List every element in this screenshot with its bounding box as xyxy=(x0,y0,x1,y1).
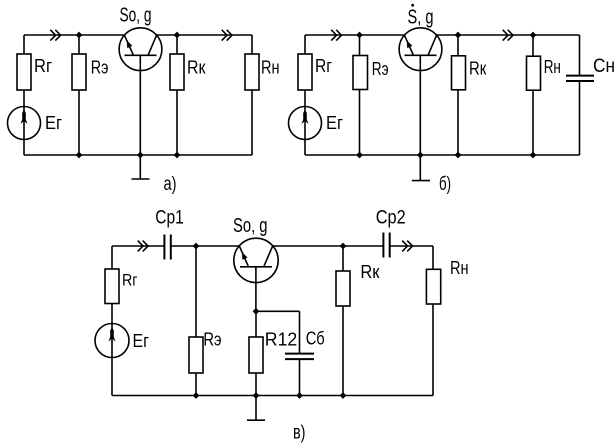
svg-text:S, g: S, g xyxy=(408,7,434,29)
wire: left branch vertical Rg/Eg (v) xyxy=(111,246,113,396)
source Eg (b) xyxy=(289,107,322,140)
svg-text:б): б) xyxy=(439,174,451,195)
wire: Re branch vertical (b) xyxy=(359,35,361,155)
svg-text:So, g: So, g xyxy=(233,215,268,237)
transistor VT (a) xyxy=(119,28,162,155)
wire: R12 branch vertical (v) xyxy=(255,311,257,395)
wire: Cb vertical upper (v) xyxy=(299,311,301,353)
node dot a top Rk xyxy=(174,32,181,39)
wire: top bus segment 1 (v) xyxy=(112,245,164,247)
wire: top bus segment 3 (v) xyxy=(273,245,384,247)
node dot a bottom Re xyxy=(76,152,83,159)
capacitor Cp2 (v) xyxy=(383,233,389,258)
source Eg arrow (v) xyxy=(108,327,115,342)
wire: top bus left segment (a) xyxy=(24,34,124,36)
resistor Rk (v) xyxy=(336,271,350,306)
wire: top bus right segment (b) xyxy=(437,34,580,36)
svg-text:Rг: Rг xyxy=(122,271,138,290)
node dot b top Rk xyxy=(455,32,462,39)
node dot b bottom Rk xyxy=(455,152,462,159)
source Eg arrow (b) xyxy=(301,110,308,125)
wire: bottom bus (b) xyxy=(305,154,580,156)
node dot v bottom Cb xyxy=(296,392,303,399)
wire: Cn branch vertical lower (b) xyxy=(579,81,581,155)
wire: Rk branch vertical (b) xyxy=(457,35,459,155)
source Eg arrow (a) xyxy=(20,110,27,125)
svg-text:Rэ: Rэ xyxy=(91,57,109,77)
wire: bottom bus (a) xyxy=(24,154,252,156)
wire: top bus left segment (b) xyxy=(305,34,404,36)
wire: top bus segment 4 (v) xyxy=(390,245,433,247)
capacitor Cp1 (v) xyxy=(164,235,170,260)
node dot v bottom R12 xyxy=(253,392,260,399)
wire: Rn branch vertical (a) xyxy=(251,35,253,155)
wire: Rn branch vertical (v) xyxy=(432,246,434,396)
ground (b) xyxy=(412,155,430,181)
svg-text:Ег: Ег xyxy=(326,113,343,133)
svg-text:Rг: Rг xyxy=(315,56,332,76)
ground (a) xyxy=(132,155,150,179)
ground (v) xyxy=(247,396,265,421)
wire: left branch vertical Rg/Eg (b) xyxy=(304,35,306,155)
node dot b bottom Re xyxy=(356,152,363,159)
svg-text:Rк: Rк xyxy=(187,58,206,78)
node dot v top Re xyxy=(193,243,200,250)
wire: Cn branch vertical upper (b) xyxy=(579,35,581,76)
node dot a bottom base xyxy=(137,152,144,159)
svg-text:Rг: Rг xyxy=(34,56,52,76)
node dot a top Re xyxy=(76,32,83,39)
resistor Rg (a) xyxy=(17,54,31,90)
resistor Rn (v) xyxy=(426,269,440,304)
arrow chevrons input (b) xyxy=(331,30,341,41)
wire: bottom bus (v) xyxy=(112,395,433,397)
capacitor Cb (v) xyxy=(285,354,314,360)
arrow chevrons input (a) xyxy=(50,30,60,41)
node dot v base junction xyxy=(253,308,260,315)
wire: Re branch vertical (a) xyxy=(78,35,80,155)
svg-text:Ег: Ег xyxy=(45,113,62,133)
svg-text:в): в) xyxy=(293,423,306,444)
node dot b top Re xyxy=(356,32,363,39)
capacitor Cn (b) xyxy=(566,76,594,81)
svg-text:Rн: Rн xyxy=(261,58,280,78)
wire: left branch vertical Rg/Eg (a) xyxy=(23,35,25,155)
svg-text:Rэ: Rэ xyxy=(203,330,221,350)
svg-text:Rэ: Rэ xyxy=(372,59,389,79)
wire: top bus segment 2 (v) xyxy=(171,245,239,247)
arrow chevrons output (b) xyxy=(503,30,513,41)
resistor Re (a) xyxy=(72,54,86,90)
resistor Rk (a) xyxy=(170,54,184,90)
node dot a bottom Rk xyxy=(174,152,181,159)
node dot b top Rn xyxy=(530,32,537,39)
resistor Rn (a) xyxy=(245,54,259,90)
node dot b bottom base xyxy=(417,152,424,159)
svg-text:So, g: So, g xyxy=(120,4,152,26)
source Eg (v) xyxy=(95,324,129,358)
resistor Re (v) xyxy=(189,337,203,373)
resistor Re (b) xyxy=(353,56,368,90)
node dot v bottom Rk xyxy=(340,392,347,399)
wire: base node to Cb horizontal (v) xyxy=(256,310,300,312)
svg-text:а): а) xyxy=(164,174,177,195)
wire: Rk branch vertical (a) xyxy=(176,35,178,155)
wire: Rn branch vertical (b) xyxy=(532,35,534,155)
svg-text:Rн: Rн xyxy=(450,258,469,278)
transistor VT (b) xyxy=(399,28,442,155)
svg-text:Rк: Rк xyxy=(469,58,486,78)
svg-text:Rк: Rк xyxy=(360,262,379,282)
arrow chevrons input (v) xyxy=(138,241,148,252)
resistor R12 (v) xyxy=(249,337,263,373)
source Eg (a) xyxy=(8,107,41,140)
resistor Rn (b) xyxy=(527,56,541,90)
svg-text:Сн: Сн xyxy=(593,56,615,77)
transistor VT (v) xyxy=(234,238,278,311)
wire: Rk branch vertical (v) xyxy=(342,246,344,396)
label S dot (b) xyxy=(411,4,414,7)
resistor Rk (b) xyxy=(452,56,466,90)
svg-text:Сб: Сб xyxy=(306,329,325,349)
resistor Rg (v) xyxy=(105,269,119,304)
node dot v top Rk xyxy=(340,243,347,250)
wire: top bus right segment (a) xyxy=(157,34,252,36)
svg-text:Ег: Ег xyxy=(133,331,150,351)
svg-text:Rн: Rн xyxy=(544,57,561,77)
node dot b bottom Rn xyxy=(530,152,537,159)
wire: Re branch vertical (v) xyxy=(195,246,197,396)
svg-text:R12: R12 xyxy=(265,330,298,350)
svg-text:Ср1: Ср1 xyxy=(155,208,184,229)
resistor Rg (b) xyxy=(298,54,312,90)
arrow chevrons output (v) xyxy=(402,241,412,252)
arrow chevrons output (a) xyxy=(222,30,232,41)
wire: Cb vertical lower (v) xyxy=(299,359,301,395)
node dot v bottom Re xyxy=(193,392,200,399)
svg-text:Ср2: Ср2 xyxy=(376,208,406,229)
